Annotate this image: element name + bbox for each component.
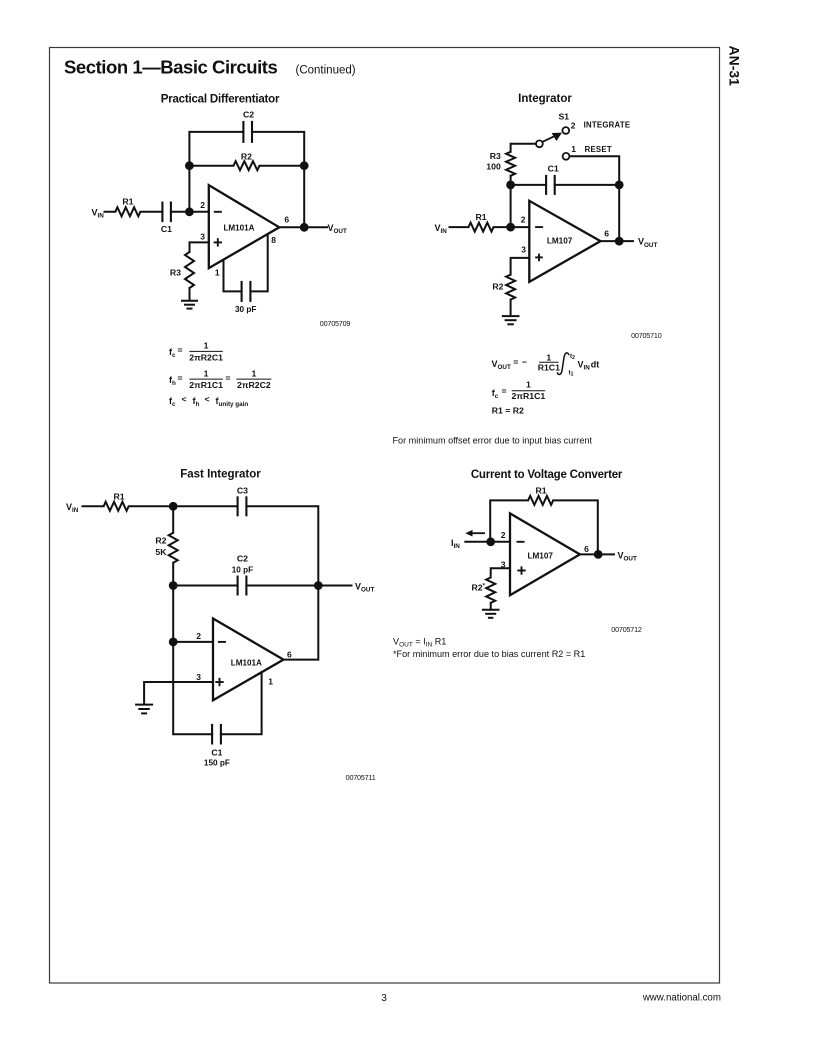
svg-text:6: 6 [284,215,289,225]
svg-text:VOUT: VOUT [328,223,347,235]
svg-text:R3: R3 [170,268,181,278]
svg-text:R1: R1 [113,492,124,502]
svg-text:Practical Differentiator: Practical Differentiator [161,94,280,106]
svg-text:VIN: VIN [92,207,105,219]
svg-text:Section 1—Basic Circuits: Section 1—Basic Circuits [64,57,277,78]
svg-text:fc: fc [169,347,176,359]
svg-text:R2*: R2* [471,583,485,593]
svg-text:C3: C3 [237,486,248,496]
svg-text:3: 3 [521,245,526,255]
svg-text:C2: C2 [237,554,248,564]
svg-text:2: 2 [200,200,205,210]
svg-text:1: 1 [204,341,209,351]
svg-text:www.national.com: www.national.com [642,993,721,1004]
svg-text:−: − [522,357,527,367]
svg-text:R1: R1 [535,485,546,495]
svg-text:100: 100 [486,162,501,172]
svg-text:=: = [225,373,230,383]
svg-text:fh: fh [169,375,176,387]
svg-text:30 pF: 30 pF [235,305,256,314]
svg-text:C1: C1 [211,748,222,758]
svg-text:funity gain: funity gain [216,396,249,408]
svg-text:VOUT: VOUT [638,237,657,249]
svg-text:LM107: LM107 [547,237,573,246]
svg-text:1: 1 [251,368,256,378]
svg-text:<: < [205,394,210,404]
svg-text:C1: C1 [548,164,559,174]
svg-text:<: < [182,394,187,404]
svg-text:3: 3 [501,560,506,570]
svg-text:=: = [178,373,183,383]
svg-text:fc: fc [169,396,176,408]
svg-text:t1: t1 [569,370,574,378]
svg-text:5K: 5K [155,547,167,557]
svg-text:VOUT: VOUT [618,550,637,562]
svg-text:00705711: 00705711 [346,773,376,782]
svg-text:Integrator: Integrator [518,93,572,105]
svg-text:2πR2C2: 2πR2C2 [237,380,271,390]
svg-text:LM101A: LM101A [231,658,262,667]
svg-text:RESET: RESET [585,145,612,154]
svg-text:R1 = R2: R1 = R2 [492,406,524,416]
svg-text:=: = [502,386,507,396]
svg-text:R3: R3 [490,151,501,161]
svg-text:8: 8 [271,235,276,245]
svg-text:R2: R2 [241,152,252,162]
svg-text:150 pF: 150 pF [204,759,230,768]
svg-text:S1: S1 [559,112,570,122]
svg-text:R2: R2 [492,281,503,291]
svg-text:VIN: VIN [578,359,591,371]
svg-text:LM101A: LM101A [223,224,254,233]
svg-text:1: 1 [204,368,209,378]
svg-text:2πR1C1: 2πR1C1 [189,380,223,390]
svg-text:1: 1 [215,268,220,278]
svg-text:*For minimum error due to bias: *For minimum error due to bias current R… [393,649,585,659]
svg-text:INTEGRATE: INTEGRATE [584,121,631,130]
svg-text:VOUT: VOUT [355,581,374,593]
svg-text:2πR1C1: 2πR1C1 [512,391,546,401]
svg-text:1: 1 [571,144,576,154]
svg-text:fh: fh [193,396,200,408]
svg-text:00705709: 00705709 [320,319,351,328]
svg-text:LM107: LM107 [527,552,553,561]
svg-text:=: = [513,357,518,367]
svg-text:Fast Integrator: Fast Integrator [180,469,261,481]
svg-text:For minimum offset error due t: For minimum offset error due to input bi… [393,436,593,446]
svg-text:dt: dt [591,359,600,369]
svg-text:C1: C1 [161,224,172,234]
svg-text:fc: fc [492,388,499,400]
svg-text:VIN: VIN [435,223,448,235]
svg-text:10 pF: 10 pF [232,566,253,575]
svg-text:R1: R1 [122,197,133,207]
svg-text:6: 6 [604,229,609,239]
svg-text:2: 2 [196,631,201,641]
svg-text:Current to Voltage Converter: Current to Voltage Converter [471,469,623,481]
svg-text:=: = [178,345,183,355]
svg-text:2: 2 [571,121,576,131]
svg-text:1: 1 [526,380,531,390]
svg-text:(Continued): (Continued) [296,65,356,77]
svg-text:3: 3 [196,672,201,682]
svg-text:2: 2 [521,215,526,225]
svg-text:AN-31: AN-31 [727,46,743,87]
svg-text:1: 1 [268,677,273,687]
svg-text:3: 3 [200,232,205,242]
svg-text:00705712: 00705712 [611,625,642,634]
svg-text:R1: R1 [475,212,486,222]
svg-text:1: 1 [546,352,551,362]
svg-text:3: 3 [381,993,387,1004]
svg-text:IIN: IIN [451,538,460,550]
svg-text:R1C1: R1C1 [538,363,560,373]
svg-text:6: 6 [584,544,589,554]
svg-text:C2: C2 [243,110,254,120]
svg-text:t2: t2 [570,353,575,361]
svg-text:2πR2C1: 2πR2C1 [189,352,223,362]
svg-text:R2: R2 [155,536,166,546]
svg-text:VOUT: VOUT [492,359,511,371]
svg-text:VIN: VIN [66,502,79,514]
svg-text:VOUT = IIN R1: VOUT = IIN R1 [393,637,446,649]
svg-text:00705710: 00705710 [631,331,662,340]
svg-text:2: 2 [501,530,506,540]
svg-text:6: 6 [287,650,292,660]
